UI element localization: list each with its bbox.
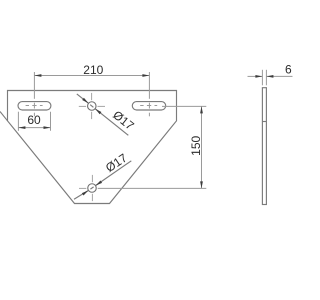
dimension 210 line xyxy=(34,75,149,77)
svg-text:210: 210 xyxy=(83,63,103,77)
svg-text:150: 150 xyxy=(189,135,203,155)
hole top leader arrows xyxy=(82,98,101,114)
svg-text:60: 60 xyxy=(27,113,41,127)
side view plate xyxy=(262,88,266,205)
hole top crosshair xyxy=(79,93,105,119)
svg-text:Ø17: Ø17 xyxy=(110,108,137,133)
plate outline (front view) xyxy=(0,91,177,204)
dimension 210 extension lines xyxy=(34,72,149,99)
dimension 60 arrows xyxy=(18,126,50,129)
hole bottom leader arrows xyxy=(82,181,102,196)
svg-text:6: 6 xyxy=(285,63,292,77)
slot left centerline xyxy=(26,103,43,117)
dimension 60 line xyxy=(18,127,50,129)
dimension 6 extension lines xyxy=(262,70,266,86)
dimension 150 arrows xyxy=(200,106,203,188)
slot right (60 slot) xyxy=(132,102,165,110)
hole top Ø17 xyxy=(88,102,97,111)
slot right centerline xyxy=(140,103,157,117)
dimension 60 extension lines xyxy=(18,112,50,131)
dimension 150 extension lines xyxy=(98,106,207,188)
dimension 6 arrows xyxy=(255,75,273,78)
hole bottom leader line xyxy=(74,161,131,199)
dimension 6 line xyxy=(248,75,293,77)
dimension 150 line xyxy=(201,106,203,188)
hole bottom crosshair xyxy=(79,175,92,201)
hole bottom Ø17 xyxy=(88,184,97,193)
dimension 210 arrows xyxy=(34,74,149,77)
hole top leader line xyxy=(77,94,129,135)
slot left (60 slot) xyxy=(18,102,51,110)
